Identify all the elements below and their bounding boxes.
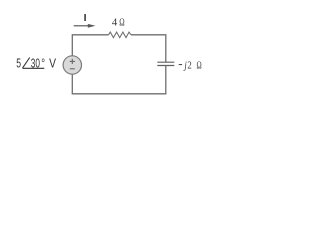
svg-text:V: V — [49, 55, 56, 70]
label minus of -j2 — [179, 64, 182, 66]
capacitor C bottom plate — [157, 65, 174, 67]
svg-text:5: 5 — [16, 55, 21, 70]
current arrow head — [88, 24, 96, 28]
wire: right vertical below capacitor + bottom + left vertical up to source — [72, 66, 166, 94]
capacitor C top plate — [157, 61, 174, 63]
svg-text:4: 4 — [112, 16, 118, 28]
voltage source minus sign — [70, 68, 75, 70]
current arrow shaft — [74, 25, 89, 27]
svg-text:2: 2 — [187, 60, 191, 72]
wire: left vertical + top-left segment — [72, 35, 108, 56]
angle symbol underline — [22, 67, 44, 69]
svg-text:Ω: Ω — [119, 16, 124, 28]
wire: top-right segment + right vertical down to capacitor — [131, 35, 166, 62]
svg-text:j: j — [183, 60, 187, 72]
voltage source plus sign — [70, 59, 75, 64]
resistor R 4-ohm zigzag — [109, 32, 132, 38]
svg-text:I: I — [84, 12, 87, 24]
svg-text:°: ° — [41, 55, 45, 70]
svg-text:30: 30 — [31, 55, 40, 70]
angle symbol diagonal — [23, 58, 30, 68]
voltage source V1 circle — [63, 56, 81, 74]
svg-text:Ω: Ω — [197, 60, 202, 72]
